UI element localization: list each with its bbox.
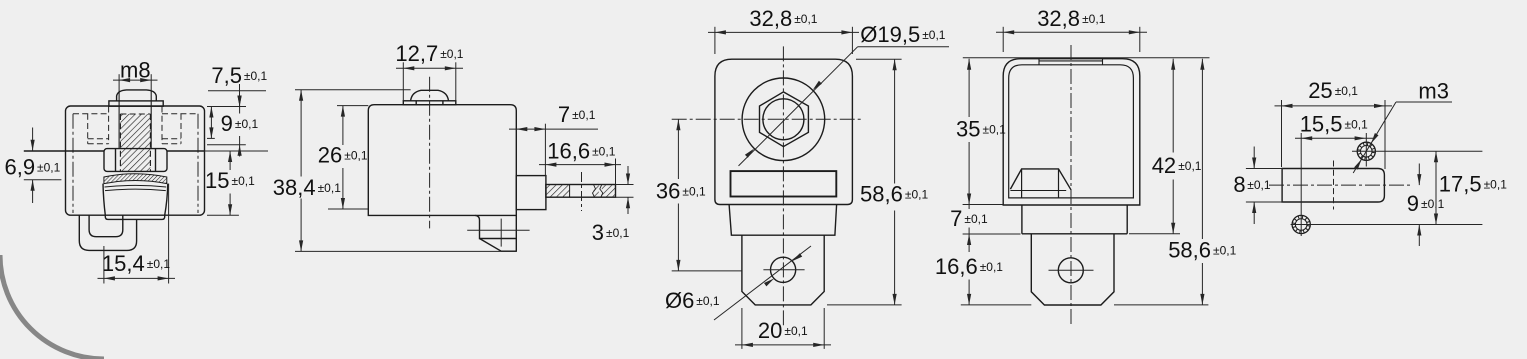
view 3 coil body front view xyxy=(715,59,853,204)
view 3 hex nut xyxy=(760,92,809,147)
svg-text:17,5: 17,5 xyxy=(1439,172,1482,197)
view 1 clamp side right xyxy=(165,184,168,216)
view 4 coil body rear view outer xyxy=(1003,59,1140,205)
svg-text:26: 26 xyxy=(318,142,342,167)
svg-text:58,6: 58,6 xyxy=(1168,238,1211,263)
dimension 15,4 xyxy=(103,246,105,284)
svg-text:±0,1: ±0,1 xyxy=(592,145,616,159)
svg-text:±0,1: ±0,1 xyxy=(244,69,268,83)
svg-text:16,6: 16,6 xyxy=(935,254,978,279)
dimension 20 xyxy=(741,308,743,349)
view 1 hidden channel bottom right xyxy=(162,138,181,140)
dimension 16,6 blade xyxy=(615,159,617,185)
view 3 label window xyxy=(731,171,837,196)
svg-text:7: 7 xyxy=(950,206,962,231)
dimension 16,6 view4 xyxy=(961,304,1032,306)
svg-text:±0,1: ±0,1 xyxy=(980,260,1004,274)
svg-text:35: 35 xyxy=(956,117,980,142)
view 2 top boss dome xyxy=(411,90,449,101)
svg-text:±0,1: ±0,1 xyxy=(794,12,818,26)
view 4 hole dia 6 xyxy=(1058,258,1083,283)
dimension 58,6 view3 xyxy=(856,58,902,60)
dimension 7,5 xyxy=(208,90,266,92)
view 3 horizontal centerline xyxy=(672,118,862,120)
svg-text:±0,1: ±0,1 xyxy=(344,148,368,162)
view 1 hidden top edge left xyxy=(73,113,109,115)
view 3 collar xyxy=(729,205,837,236)
dimension 58,6 view4 xyxy=(1114,304,1208,306)
svg-text:58,6: 58,6 xyxy=(860,182,903,207)
svg-text:±0,1: ±0,1 xyxy=(606,226,630,240)
view 5 screw m3 bottom xyxy=(1292,215,1310,233)
view 1 knurled washer band xyxy=(104,174,167,184)
dimension 9 view5 xyxy=(1418,164,1420,186)
svg-text:±0,1: ±0,1 xyxy=(440,47,464,61)
view 2 vertical centerline xyxy=(429,77,431,229)
view 5 bracket plate top view xyxy=(1282,169,1384,203)
svg-text:±0,1: ±0,1 xyxy=(37,161,61,175)
svg-text:±0,1: ±0,1 xyxy=(682,185,706,199)
svg-text:36: 36 xyxy=(656,179,680,204)
view 5 horizontal centerline xyxy=(1269,184,1412,186)
leader dia 19,5 xyxy=(858,46,949,48)
svg-text:15,5: 15,5 xyxy=(1300,112,1343,137)
view 2 coil body side view xyxy=(368,105,516,216)
view 1 bolt shank xyxy=(118,91,120,149)
view 4 terminal prism xyxy=(1010,169,1071,190)
dimension 3 blade thickness xyxy=(616,184,634,186)
svg-text:32,8: 32,8 xyxy=(1037,6,1080,31)
view 3 inner circle xyxy=(763,99,804,140)
svg-text:3: 3 xyxy=(592,220,604,245)
dimension 35 xyxy=(963,204,1003,206)
svg-text:15,4: 15,4 xyxy=(102,251,145,276)
svg-text:38,4: 38,4 xyxy=(273,175,316,200)
svg-text:±0,1: ±0,1 xyxy=(696,294,720,308)
dimension 32,8 view4 xyxy=(1002,27,1004,52)
svg-text:±0,1: ±0,1 xyxy=(572,108,596,122)
view 5 bottom screw centerline xyxy=(1291,224,1483,226)
svg-text:16,6: 16,6 xyxy=(547,139,590,164)
view 4 vertical centerline xyxy=(1070,45,1072,327)
svg-text:±0,1: ±0,1 xyxy=(964,212,988,226)
card rounded corner border (bottom-left) xyxy=(0,255,104,359)
svg-text:20: 20 xyxy=(758,318,782,343)
dimension 15,5 xyxy=(1300,133,1302,236)
view 1 hidden channel bottom left xyxy=(88,138,109,140)
svg-text:±0,1: ±0,1 xyxy=(232,174,256,188)
view 1 hidden slot right xyxy=(180,114,182,144)
dimension 12,7 xyxy=(402,62,404,101)
svg-text:±0,1: ±0,1 xyxy=(318,181,342,195)
svg-text:9: 9 xyxy=(221,111,233,136)
view 2 top boss plinth xyxy=(403,101,456,105)
leader dia 6 xyxy=(714,246,811,320)
dimension 42 xyxy=(1129,233,1180,235)
view 1 bolt head dome xyxy=(117,90,157,101)
svg-text:Ø19,5: Ø19,5 xyxy=(860,22,920,47)
svg-text:12,7: 12,7 xyxy=(395,41,438,66)
svg-text:7: 7 xyxy=(558,102,570,127)
view 1 bolt head flange xyxy=(109,101,163,106)
dimension 36 xyxy=(672,270,742,272)
svg-text:7,5: 7,5 xyxy=(211,63,242,88)
view 1 coil dome lines xyxy=(105,185,167,187)
label m3 leader xyxy=(1396,101,1452,103)
svg-text:25: 25 xyxy=(1308,78,1332,103)
dimension 38,4 xyxy=(295,89,411,91)
svg-text:m8: m8 xyxy=(120,58,151,83)
view 1 bracket plate line xyxy=(24,150,104,152)
svg-text:±0,1: ±0,1 xyxy=(1082,12,1106,26)
svg-text:±0,1: ±0,1 xyxy=(1213,244,1237,258)
view 4 coil body inner shell xyxy=(1009,65,1134,198)
view 1 hidden top edge right xyxy=(162,113,198,115)
dimension 15 xyxy=(229,151,231,170)
svg-text:±0,1: ±0,1 xyxy=(147,257,171,271)
svg-text:±0,1: ±0,1 xyxy=(1345,118,1369,132)
view 3 magnet circle dia 19,5 xyxy=(742,78,825,161)
view 2 blade centerline xyxy=(581,172,583,211)
dimension 26 xyxy=(337,105,368,107)
svg-text:9: 9 xyxy=(1407,191,1419,216)
svg-text:Ø6: Ø6 xyxy=(665,288,694,313)
view 4 lower tab xyxy=(1031,234,1114,305)
dimension m8 xyxy=(118,74,120,91)
svg-text:±0,1: ±0,1 xyxy=(983,123,1007,137)
view 4 top recessed edge xyxy=(1039,60,1103,62)
view 4 top long extension line xyxy=(963,57,1210,59)
view 3 vertical centerline xyxy=(782,46,784,325)
view 2 blade terminal xyxy=(546,185,616,198)
view 1 clamp foot xyxy=(105,215,164,219)
view 1 clamp side left xyxy=(103,184,105,216)
view 4 top edge ticks xyxy=(1038,59,1040,65)
view 1 wire clip outer xyxy=(79,215,136,250)
view 1 hidden channel left wall xyxy=(72,114,74,213)
view 1 bracket outer body xyxy=(66,106,205,215)
view 4 collar xyxy=(1022,205,1127,234)
svg-text:m3: m3 xyxy=(1418,78,1449,103)
dimension 7 collar xyxy=(963,233,1021,235)
view 1 hidden slot left xyxy=(87,114,89,144)
svg-text:±0,1: ±0,1 xyxy=(784,324,808,338)
view 3 lower tab xyxy=(742,235,824,305)
view 5 screw m3 top xyxy=(1357,142,1375,160)
view 3 hole dia 6 xyxy=(771,257,796,282)
svg-text:42: 42 xyxy=(1152,153,1176,178)
dimension 7 terminal xyxy=(544,124,546,176)
view 1 bolt thread hatch xyxy=(120,114,150,172)
view 1 hex nut xyxy=(104,149,167,172)
view 5 top screw centerlines xyxy=(1352,150,1482,152)
svg-text:±0,1: ±0,1 xyxy=(1421,197,1445,211)
svg-text:32,8: 32,8 xyxy=(749,6,792,31)
view 1 hidden channel right wall xyxy=(197,114,199,213)
view 1 hidden bore wall right xyxy=(161,107,163,144)
dimension 25 xyxy=(1281,100,1283,167)
dimension inner depth xyxy=(210,107,212,139)
view 5 hidden edge xyxy=(1333,161,1335,210)
svg-text:±0,1: ±0,1 xyxy=(922,28,946,42)
svg-text:±0,1: ±0,1 xyxy=(1178,159,1202,173)
svg-text:6,9: 6,9 xyxy=(5,155,36,180)
view 2 mounting tab below body xyxy=(475,215,516,238)
svg-text:15: 15 xyxy=(205,168,229,193)
dimension 9 xyxy=(239,107,241,114)
svg-text:±0,1: ±0,1 xyxy=(235,117,259,131)
view 2 tab centerline cross xyxy=(467,229,529,231)
dimension 17,5 xyxy=(1435,151,1437,224)
svg-text:±0,1: ±0,1 xyxy=(1335,84,1359,98)
svg-text:±0,1: ±0,1 xyxy=(1484,178,1508,192)
dimension 8 xyxy=(1246,168,1283,170)
view 1 hidden bore wall left xyxy=(108,107,110,144)
dimension 32,8 view3 xyxy=(714,27,716,54)
svg-text:±0,1: ±0,1 xyxy=(1247,178,1271,192)
dimension 6,9 xyxy=(32,128,34,151)
view 2 terminal boss xyxy=(516,176,546,210)
svg-text:±0,1: ±0,1 xyxy=(905,188,929,202)
view 1 wire clip slot xyxy=(89,215,123,236)
svg-text:8: 8 xyxy=(1233,172,1245,197)
